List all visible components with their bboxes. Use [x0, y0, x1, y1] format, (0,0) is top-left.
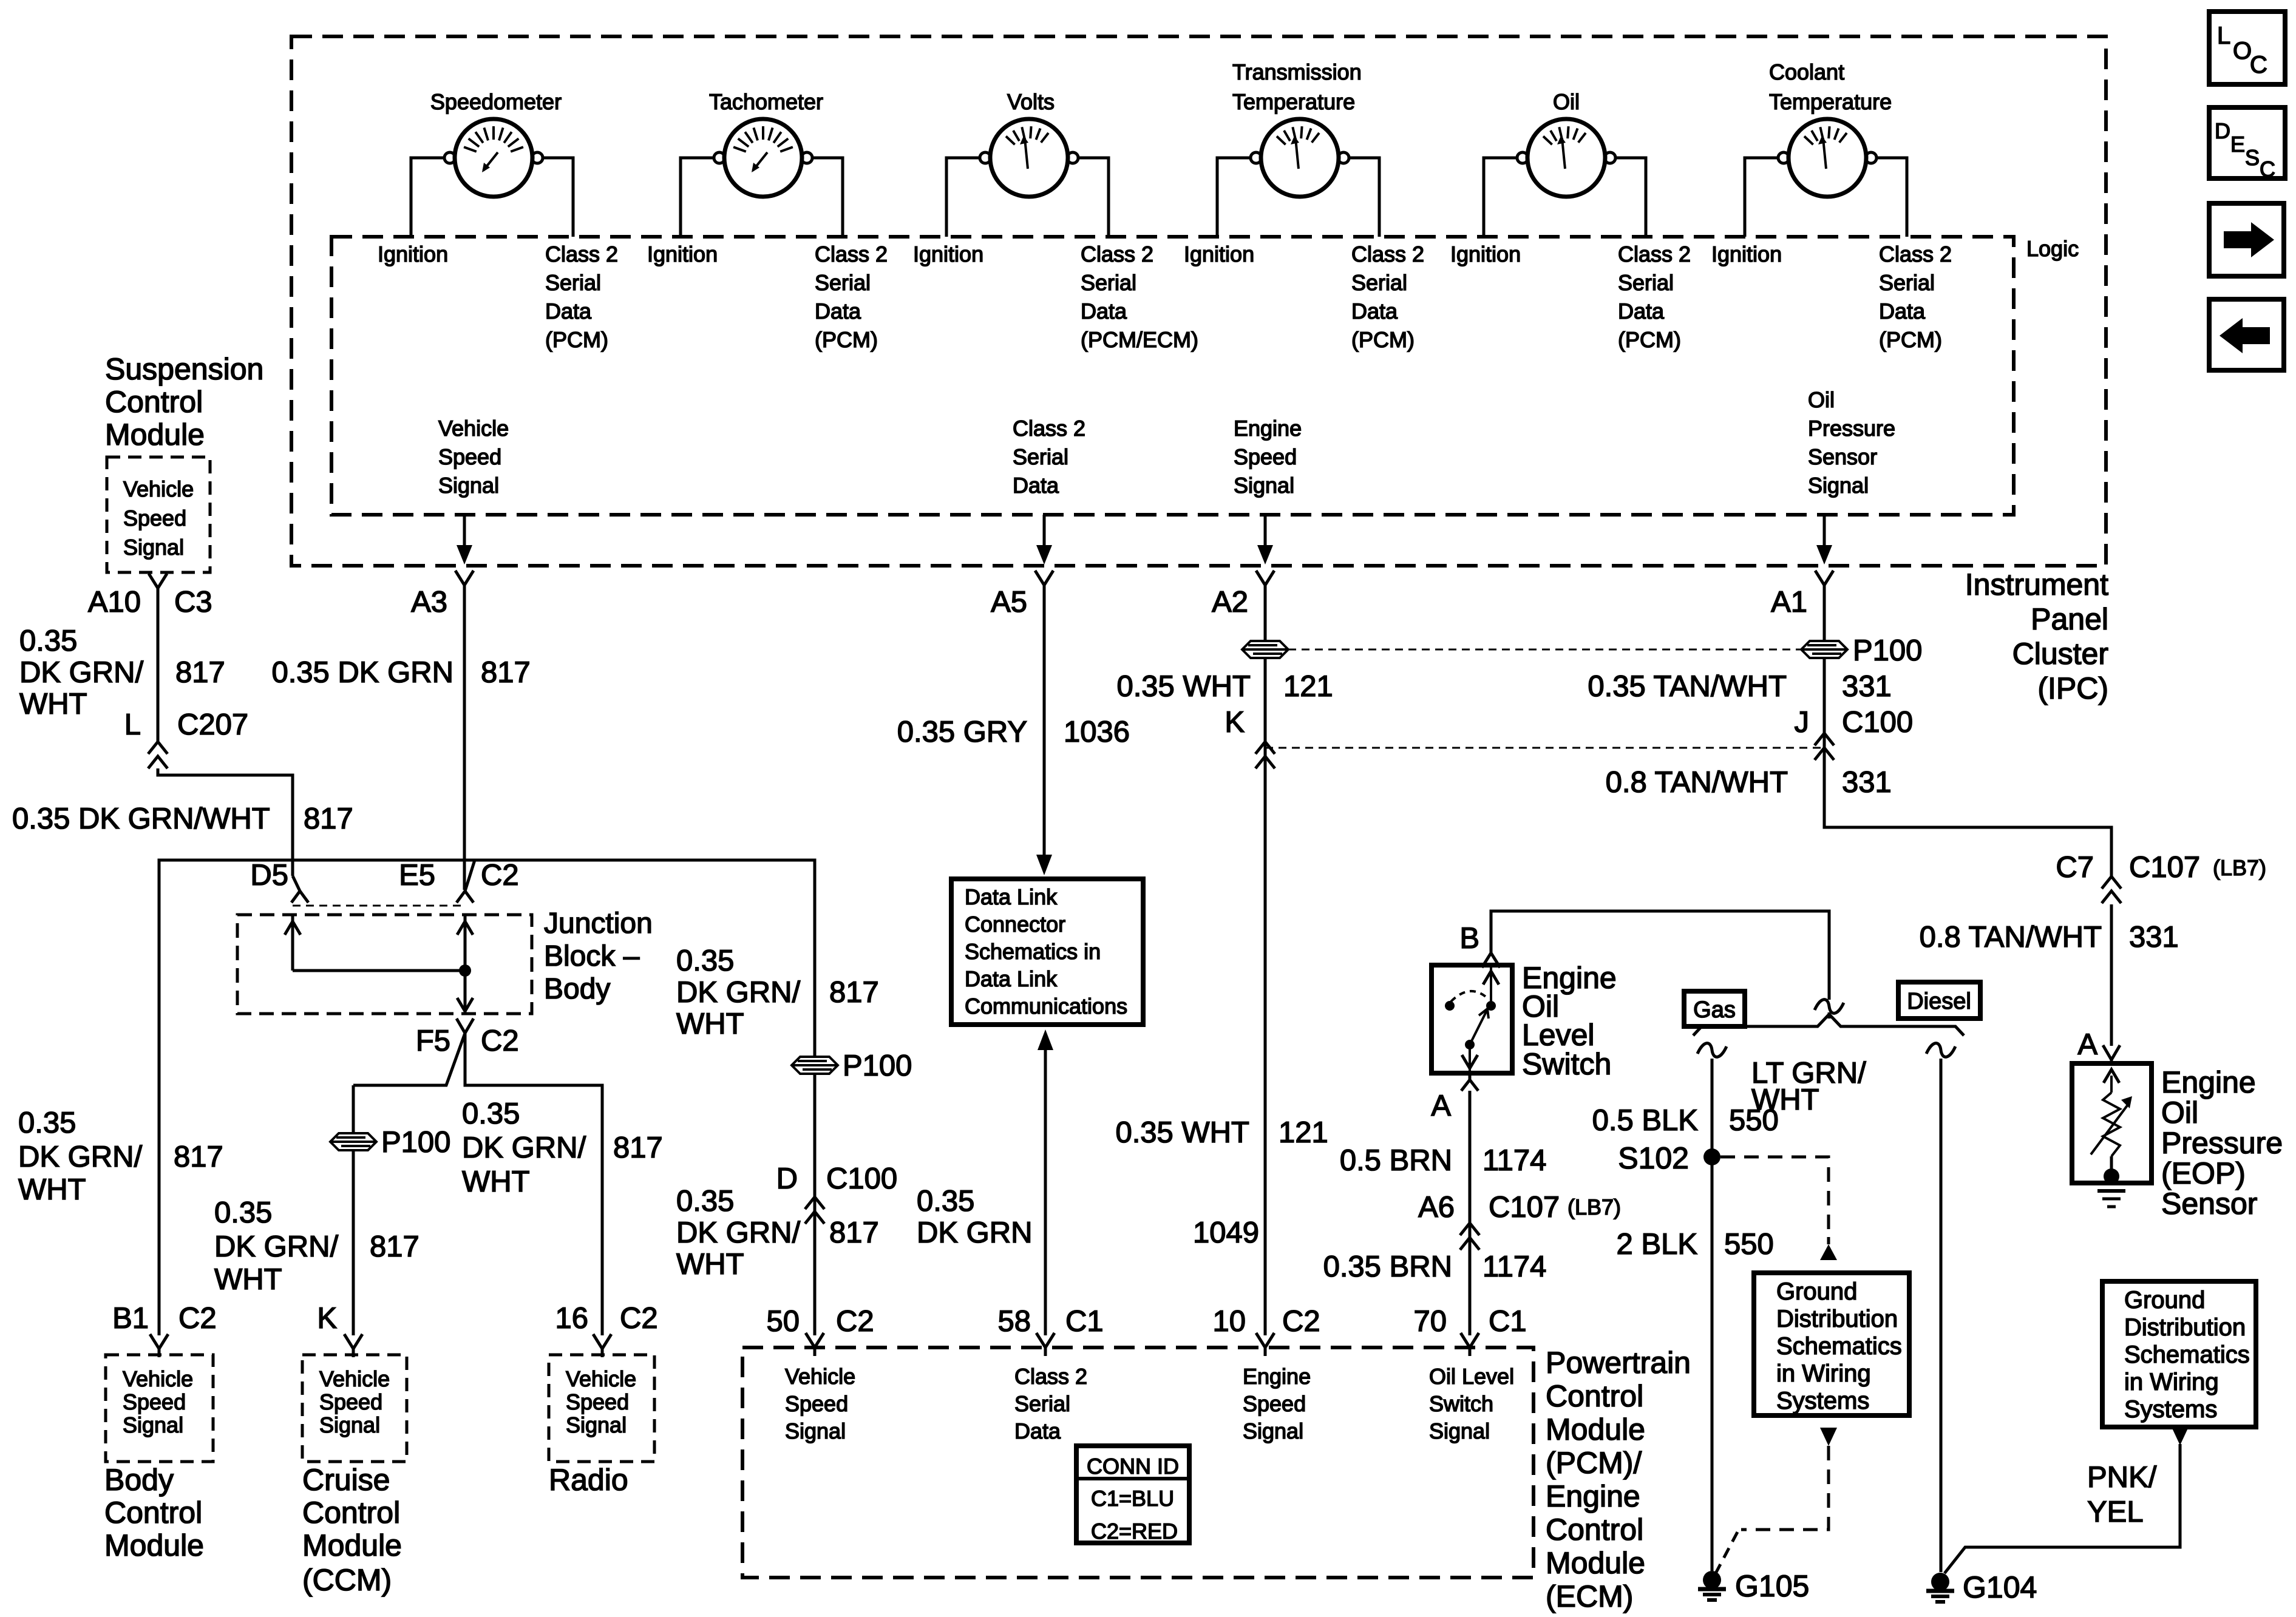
svg-text:Speed: Speed: [438, 444, 501, 469]
svg-text:Instrument: Instrument: [1965, 568, 2108, 602]
svg-text:2 BLK: 2 BLK: [1617, 1228, 1698, 1261]
CONN ID table: [1076, 1446, 1189, 1543]
svg-text:DK GRN/: DK GRN/: [676, 976, 801, 1009]
svg-text:Body: Body: [104, 1463, 174, 1497]
svg-text:331: 331: [1842, 766, 1892, 799]
svg-text:C2: C2: [836, 1305, 874, 1338]
switch pivot: [1465, 1040, 1475, 1049]
svg-text:C1=BLU: C1=BLU: [1091, 1486, 1174, 1511]
svg-text:(LB7): (LB7): [1567, 1195, 1621, 1219]
svg-text:(PCM): (PCM): [815, 327, 878, 352]
junction block internal bus: [293, 969, 465, 972]
svg-text:Systems: Systems: [1776, 1388, 1869, 1414]
svg-text:Speed: Speed: [1243, 1391, 1306, 1416]
switch internal contact wire: [1490, 968, 1492, 1002]
svg-text:331: 331: [2129, 921, 2179, 954]
svg-text:Class 2: Class 2: [1081, 242, 1153, 266]
svg-text:D: D: [2215, 118, 2230, 143]
connector Y at pin A10/C3: [149, 574, 158, 588]
wire C207 to D5: [158, 768, 293, 876]
svg-text:L: L: [124, 708, 141, 741]
switch fixed contact: [1486, 1001, 1496, 1011]
svg-text:Junction: Junction: [544, 907, 653, 940]
dashed connector line C100: [1265, 747, 1824, 749]
EOP variable resistor zigzag: [2103, 1093, 2120, 1156]
splice S102: [1703, 1148, 1720, 1165]
svg-text:Class 2: Class 2: [1013, 416, 1085, 441]
svg-text:Serial: Serial: [545, 270, 601, 295]
wire A10 to C207: [157, 597, 160, 742]
svg-text:A: A: [2077, 1028, 2097, 1061]
svg-text:121: 121: [1283, 670, 1333, 703]
svg-text:Ignition: Ignition: [1711, 242, 1782, 266]
switch wire to pin A: [1469, 1045, 1471, 1073]
wire Data Link Connector to PCM 58: [1038, 1029, 1053, 1050]
svg-text:Schematics in: Schematics in: [965, 939, 1101, 964]
svg-text:Temperature: Temperature: [1769, 89, 1892, 114]
svg-text:Data: Data: [1879, 299, 1926, 324]
arrow into Ground Distribution box (up): [1820, 1244, 1837, 1260]
connector Y at EOP pin A: [2103, 1045, 2111, 1060]
Suspension Control Module dashed box (Vehicle Speed Signal): [107, 457, 210, 572]
svg-text:P100: P100: [843, 1049, 912, 1082]
svg-text:Tachometer: Tachometer: [709, 89, 823, 114]
svg-text:0.5 BRN: 0.5 BRN: [1340, 1144, 1452, 1177]
svg-text:Pressure: Pressure: [2161, 1126, 2283, 1160]
svg-text:Module: Module: [105, 418, 205, 452]
connector Y at PCM pin 10/C2: [1256, 1333, 1265, 1347]
svg-text:Connector: Connector: [965, 912, 1065, 937]
svg-text:0.35: 0.35: [676, 944, 734, 977]
gauge Volts: [946, 119, 1109, 237]
svg-text:D5: D5: [250, 859, 288, 892]
wire net D/C100 horizontal to BCM and PCM: [159, 860, 815, 1335]
svg-text:WHT: WHT: [18, 1173, 86, 1206]
svg-text:Radio: Radio: [549, 1463, 628, 1497]
dashed wire Ground Distribution to G105: [1741, 1446, 1829, 1530]
svg-text:Module: Module: [1546, 1546, 1645, 1580]
svg-text:Vehicle: Vehicle: [438, 416, 509, 441]
svg-text:Serial: Serial: [1351, 270, 1407, 295]
svg-text:D: D: [776, 1162, 798, 1195]
svg-text:0.35: 0.35: [18, 1107, 76, 1139]
svg-text:817: 817: [481, 656, 531, 689]
svg-text:C100: C100: [1842, 706, 1913, 739]
gauge Tachometer: [681, 119, 843, 237]
connector chevron D/C100: [805, 1197, 824, 1209]
svg-text:Ignition: Ignition: [1184, 242, 1254, 266]
svg-text:(PCM): (PCM): [545, 327, 608, 352]
connector terminal D5: [293, 876, 300, 891]
svg-text:Data: Data: [1351, 299, 1398, 324]
connector Y at pin F5/C2: [457, 1019, 465, 1033]
gauge Transmission Temperature: [1217, 119, 1379, 237]
svg-text:C2: C2: [178, 1302, 217, 1335]
svg-text:C2=RED: C2=RED: [1091, 1519, 1178, 1544]
Engine Oil Level Switch box: [1432, 965, 1512, 1073]
connector chevron C207: [148, 742, 168, 754]
svg-text:1049: 1049: [1193, 1216, 1259, 1249]
svg-text:WHT: WHT: [214, 1263, 282, 1296]
svg-text:Engine: Engine: [1243, 1364, 1311, 1389]
connector Y at PCM pin 58/C1: [1036, 1333, 1045, 1347]
svg-text:DK GRN/: DK GRN/: [214, 1230, 339, 1263]
svg-text:Signal: Signal: [1808, 473, 1869, 498]
svg-text:Data: Data: [1013, 473, 1059, 498]
svg-text:817: 817: [829, 976, 879, 1009]
Instrument Panel Cluster (IPC) outer dashed box: [291, 36, 2106, 566]
ground G105: [1703, 1571, 1721, 1589]
svg-text:(ECM): (ECM): [1546, 1579, 1633, 1613]
svg-text:Ignition: Ignition: [1450, 242, 1521, 266]
connector chevron C7/C107: [2102, 876, 2121, 889]
gauge Coolant Temperature: [1745, 119, 1907, 237]
ground G104: [1931, 1573, 1949, 1591]
svg-text:Ignition: Ignition: [913, 242, 983, 266]
connector P100 on A2 wire: [1242, 641, 1288, 658]
svg-text:(LB7): (LB7): [2213, 855, 2266, 880]
svg-text:Speed: Speed: [123, 1389, 186, 1414]
svg-text:Class 2: Class 2: [545, 242, 618, 266]
svg-text:WHT: WHT: [19, 688, 87, 720]
svg-text:Speedometer: Speedometer: [430, 89, 562, 114]
connector Y at BCM pin B1/C2: [150, 1334, 159, 1349]
connector P100 on 50/C2 branch: [792, 1057, 838, 1074]
svg-text:Signal: Signal: [785, 1419, 846, 1443]
svg-text:Engine: Engine: [1546, 1479, 1640, 1513]
svg-text:Data: Data: [815, 299, 861, 324]
svg-text:817: 817: [829, 1216, 879, 1249]
nav icon LOC box: [2209, 12, 2285, 84]
svg-text:1174: 1174: [1483, 1144, 1546, 1177]
svg-text:A10: A10: [88, 586, 141, 619]
svg-text:DK GRN/: DK GRN/: [462, 1131, 586, 1164]
svg-text:Sensor: Sensor: [2161, 1187, 2257, 1221]
svg-text:Schematics: Schematics: [2124, 1341, 2250, 1368]
svg-text:Signal: Signal: [1429, 1419, 1490, 1443]
svg-text:Serial: Serial: [1013, 444, 1068, 469]
svg-text:Serial: Serial: [815, 270, 871, 295]
svg-text:Vehicle: Vehicle: [785, 1364, 855, 1389]
svg-text:817: 817: [613, 1131, 663, 1164]
connector Y at CCM pin K: [344, 1334, 353, 1349]
connector chevron K/C100: [1255, 742, 1275, 754]
svg-text:WHT: WHT: [676, 1008, 744, 1040]
arrow out of Ground Distribution box (down): [1820, 1428, 1837, 1446]
svg-text:C2: C2: [481, 1025, 519, 1057]
svg-text:0.35 WHT: 0.35 WHT: [1116, 670, 1251, 703]
connector Y at pin A5: [1035, 571, 1044, 585]
svg-text:10: 10: [1212, 1305, 1246, 1338]
nav icon DESC box: [2209, 107, 2285, 178]
connector chevron A6/C107: [1460, 1223, 1479, 1235]
svg-text:CONN ID: CONN ID: [1087, 1454, 1179, 1479]
connector P100 on A1 wire: [1801, 641, 1847, 658]
svg-text:0.35 DK GRN/WHT: 0.35 DK GRN/WHT: [12, 802, 270, 835]
svg-text:(PCM)/: (PCM)/: [1546, 1446, 1642, 1480]
svg-text:G104: G104: [1963, 1570, 2037, 1604]
svg-text:A2: A2: [1212, 586, 1248, 619]
junction block internal wire E5: [464, 915, 467, 971]
Data Link Connector reference box: [951, 879, 1143, 1025]
wire A3 exits IPC: [463, 515, 466, 545]
Ground Distribution Schematics reference box (G104): [2102, 1281, 2256, 1427]
svg-text:B: B: [1459, 922, 1479, 955]
svg-text:C2: C2: [620, 1302, 658, 1335]
svg-text:Class 2: Class 2: [1014, 1364, 1087, 1389]
svg-text:Suspension: Suspension: [105, 352, 263, 386]
svg-text:Distribution: Distribution: [1776, 1306, 1898, 1332]
svg-text:0.35 TAN/WHT: 0.35 TAN/WHT: [1588, 670, 1787, 703]
svg-text:(EOP): (EOP): [2161, 1156, 2246, 1190]
svg-text:Signal: Signal: [1234, 473, 1294, 498]
svg-text:Cluster: Cluster: [2012, 637, 2108, 671]
svg-text:817: 817: [174, 1141, 223, 1173]
svg-text:G105: G105: [1735, 1569, 1809, 1603]
svg-text:817: 817: [370, 1230, 419, 1263]
wire Engine Oil Level Switch B to Gas/Diesel split: [1491, 911, 1829, 1000]
svg-text:Vehicle: Vehicle: [566, 1366, 636, 1391]
svg-text:0.35: 0.35: [214, 1196, 272, 1229]
switch open contact: [1445, 1001, 1455, 1011]
wire A1 exits IPC: [1823, 515, 1826, 545]
connector Y at switch pin B: [1482, 953, 1491, 968]
svg-text:50: 50: [766, 1305, 800, 1338]
svg-text:Signal: Signal: [123, 1412, 183, 1437]
svg-text:Speed: Speed: [1234, 444, 1297, 469]
svg-text:Systems: Systems: [2124, 1396, 2217, 1423]
Radio dashed box: [549, 1355, 654, 1462]
svg-text:Data: Data: [545, 299, 592, 324]
svg-text:Oil Level: Oil Level: [1429, 1364, 1514, 1389]
Cruise Control Module dashed box: [302, 1355, 407, 1462]
svg-text:Speed: Speed: [319, 1389, 382, 1414]
Junction Block - Body dashed box: [237, 915, 532, 1014]
svg-text:Engine: Engine: [2161, 1065, 2256, 1099]
break squiggle on Gas branch: [1697, 1043, 1727, 1057]
junction block internal wire to F5: [464, 971, 467, 1014]
svg-text:C2: C2: [481, 859, 519, 892]
svg-text:Temperature: Temperature: [1232, 89, 1355, 114]
svg-text:0.35 WHT: 0.35 WHT: [1115, 1116, 1249, 1149]
EOP internal wire with arrow: [2110, 1076, 2113, 1093]
dashed connector line P100: [1288, 649, 1801, 651]
gauge Oil: [1484, 119, 1646, 237]
svg-text:Ignition: Ignition: [378, 242, 448, 266]
wire A3 to E5: [463, 594, 466, 890]
wire C107 to EOP sensor: [2110, 904, 2113, 1046]
svg-text:WHT: WHT: [462, 1165, 530, 1198]
Body Control Module dashed box: [106, 1355, 213, 1462]
svg-text:C107: C107: [1489, 1191, 1560, 1224]
break squiggle on Diesel branch: [1926, 1043, 1955, 1057]
IPC Logic inner dashed box: [331, 237, 2014, 515]
Ground Distribution Schematics reference box (G105): [1754, 1273, 1909, 1415]
svg-text:Signal: Signal: [1243, 1419, 1303, 1443]
svg-text:Switch: Switch: [1522, 1047, 1611, 1081]
svg-text:Oil: Oil: [1808, 387, 1835, 412]
wire A1 to C7: [1824, 760, 2111, 876]
svg-text:Body: Body: [544, 973, 610, 1005]
svg-text:Control: Control: [105, 385, 203, 419]
svg-text:0.35: 0.35: [19, 625, 77, 657]
svg-text:C207: C207: [177, 708, 248, 741]
svg-text:Control: Control: [1546, 1379, 1643, 1413]
svg-text:(PCM): (PCM): [1351, 327, 1415, 352]
svg-text:Signal: Signal: [566, 1412, 627, 1437]
svg-text:C1: C1: [1489, 1305, 1527, 1338]
svg-text:DK GRN/: DK GRN/: [676, 1216, 801, 1249]
svg-text:1036: 1036: [1064, 716, 1130, 748]
svg-text:Data Link: Data Link: [965, 884, 1058, 909]
wire A5 exits IPC: [1043, 515, 1046, 545]
svg-text:Serial: Serial: [1014, 1391, 1070, 1416]
svg-text:Serial: Serial: [1879, 270, 1935, 295]
svg-text:Switch: Switch: [1429, 1391, 1493, 1416]
gauge Speedometer: [411, 119, 573, 237]
wire Gas branch down to G105: [1711, 1059, 1714, 1571]
svg-text:DK GRN/: DK GRN/: [19, 656, 144, 689]
svg-text:0.35 DK GRN: 0.35 DK GRN: [271, 656, 453, 689]
svg-text:A: A: [1431, 1090, 1451, 1122]
svg-text:Block –: Block –: [544, 940, 640, 972]
svg-text:Logic: Logic: [2026, 236, 2079, 261]
svg-text:Class 2: Class 2: [815, 242, 888, 266]
svg-text:J: J: [1795, 706, 1810, 739]
svg-text:Transmission: Transmission: [1232, 59, 1362, 84]
svg-text:K: K: [1224, 706, 1245, 739]
svg-text:Distribution: Distribution: [2124, 1314, 2246, 1341]
svg-text:Control: Control: [104, 1496, 202, 1530]
svg-text:Data: Data: [1014, 1419, 1061, 1443]
svg-text:K: K: [317, 1302, 337, 1335]
svg-text:Module: Module: [1546, 1412, 1645, 1446]
svg-text:Diesel: Diesel: [1907, 989, 1971, 1014]
svg-text:Vehicle: Vehicle: [319, 1366, 390, 1391]
break squiggle on B wire: [1815, 1000, 1844, 1014]
svg-text:Engine: Engine: [1234, 416, 1302, 441]
svg-text:Coolant: Coolant: [1769, 59, 1844, 84]
svg-text:C: C: [2250, 52, 2267, 78]
svg-text:Signal: Signal: [438, 473, 499, 498]
connector Y at PCM pin 50/C2: [806, 1333, 815, 1347]
connector Y at switch pin A: [1469, 1073, 1472, 1080]
svg-text:C2: C2: [1282, 1305, 1320, 1338]
EOP ground connection: [2110, 1156, 2113, 1176]
label box Gas: [1684, 991, 1745, 1026]
svg-text:C3: C3: [174, 586, 212, 619]
svg-text:Signal: Signal: [123, 535, 184, 560]
svg-text:Data Link: Data Link: [965, 966, 1058, 991]
wire F5 to CCM branch: [353, 1033, 465, 1085]
svg-text:C: C: [2260, 157, 2275, 181]
svg-text:C7: C7: [2056, 851, 2094, 884]
svg-text:817: 817: [175, 656, 225, 689]
svg-text:Ground: Ground: [1776, 1278, 1857, 1305]
svg-text:Sensor: Sensor: [1808, 444, 1877, 469]
svg-text:Speed: Speed: [123, 506, 186, 531]
svg-text:Speed: Speed: [785, 1391, 848, 1416]
svg-text:Oil: Oil: [2161, 1096, 2198, 1130]
svg-text:121: 121: [1279, 1116, 1328, 1149]
svg-text:Schematics: Schematics: [1776, 1333, 1902, 1360]
connector chevron J/C100: [1815, 733, 1834, 745]
switch travel dashed arc: [1451, 991, 1489, 1002]
wire G104 to PNK/YEL riser: [1944, 1444, 2180, 1573]
dashed wire S102 to Ground Distribution: [1720, 1157, 1829, 1237]
connector Y at PCM pin 70/C1: [1461, 1333, 1470, 1347]
svg-text:S: S: [2245, 145, 2260, 170]
svg-text:Class 2: Class 2: [1879, 242, 1952, 266]
Powertrain Control Module dashed box: [742, 1347, 1533, 1578]
svg-text:58: 58: [997, 1305, 1031, 1338]
junction block internal wire D5: [291, 915, 294, 971]
svg-text:F5: F5: [416, 1025, 450, 1057]
svg-text:Cruise: Cruise: [302, 1463, 390, 1497]
svg-text:(PCM/ECM): (PCM/ECM): [1081, 327, 1198, 352]
svg-text:Panel: Panel: [2031, 602, 2108, 636]
connector Y at pin A1: [1815, 571, 1824, 585]
junction block top connection dashed line: [293, 905, 465, 907]
svg-text:16: 16: [555, 1302, 588, 1335]
svg-text:C107: C107: [2129, 851, 2200, 884]
wire A5 to Data Link Connector: [1043, 594, 1046, 855]
svg-text:in Wiring: in Wiring: [1776, 1360, 1871, 1387]
svg-text:(CCM): (CCM): [302, 1563, 392, 1597]
Engine Oil Pressure (EOP) Sensor box: [2072, 1063, 2152, 1183]
svg-text:Oil: Oil: [1553, 89, 1580, 114]
Gas/Diesel split brace: [1693, 1014, 1964, 1036]
wire A1 down and right to EOP sensor: [1823, 594, 1826, 827]
EOP resistor arrow: [2091, 1102, 2130, 1154]
svg-text:817: 817: [304, 802, 353, 835]
svg-text:Module: Module: [104, 1528, 204, 1562]
svg-text:0.8 TAN/WHT: 0.8 TAN/WHT: [1606, 766, 1788, 799]
svg-text:DK GRN: DK GRN: [917, 1216, 1033, 1249]
connector P100 on CCM branch: [330, 1133, 376, 1150]
svg-text:Powertrain: Powertrain: [1546, 1346, 1691, 1380]
svg-text:A3: A3: [411, 586, 447, 619]
svg-text:Serial: Serial: [1081, 270, 1136, 295]
wire A2 exits IPC: [1264, 515, 1267, 545]
svg-text:Volts: Volts: [1007, 89, 1055, 114]
connector Y at pin A3: [455, 571, 464, 585]
svg-text:Class 2: Class 2: [1618, 242, 1691, 266]
connector Y at Radio pin 16/C2: [593, 1334, 602, 1349]
svg-text:Signal: Signal: [319, 1412, 380, 1437]
svg-text:Vehicle: Vehicle: [123, 476, 194, 501]
svg-text:C100: C100: [826, 1162, 897, 1195]
svg-text:550: 550: [1724, 1228, 1774, 1261]
svg-text:P100: P100: [381, 1126, 450, 1159]
svg-text:0.35: 0.35: [917, 1185, 974, 1218]
svg-text:Class 2: Class 2: [1351, 242, 1424, 266]
label box Diesel: [1898, 982, 1980, 1019]
svg-text:S102: S102: [1618, 1141, 1689, 1175]
connector terminal E5: [465, 860, 475, 891]
svg-text:Control: Control: [302, 1496, 400, 1530]
svg-text:70: 70: [1413, 1305, 1447, 1338]
wire switch A to PCM 70: [1469, 1091, 1472, 1335]
svg-text:Data: Data: [1081, 299, 1127, 324]
svg-text:A6: A6: [1418, 1191, 1455, 1224]
svg-text:C1: C1: [1065, 1305, 1104, 1338]
wire Diesel branch down to G104: [1940, 1059, 1943, 1572]
svg-text:DK GRN/: DK GRN/: [18, 1141, 143, 1173]
svg-text:P100: P100: [1853, 634, 1922, 667]
svg-text:Module: Module: [302, 1528, 402, 1562]
connector Y at pin A2: [1256, 571, 1265, 585]
